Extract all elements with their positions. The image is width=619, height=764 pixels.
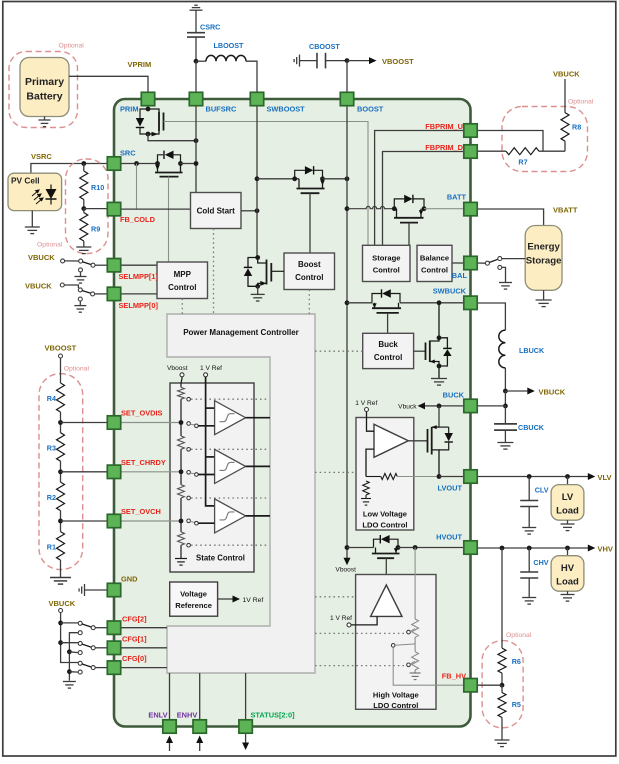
switch CFG[0] xyxy=(69,661,107,674)
svg-text:R10: R10 xyxy=(91,183,104,192)
svg-text:R6: R6 xyxy=(512,657,521,666)
switch SELMPP[0] xyxy=(60,283,107,312)
wire BUCK pin external xyxy=(477,405,505,407)
svg-text:CHV: CHV xyxy=(533,558,548,567)
pin BOOST xyxy=(340,92,353,105)
pin HVOUT xyxy=(464,541,477,554)
svg-text:1 V Ref: 1 V Ref xyxy=(200,365,222,372)
wire VLV with arrow xyxy=(477,473,612,482)
svg-text:PRIM: PRIM xyxy=(120,105,138,114)
pin ENHV xyxy=(193,720,206,733)
svg-text:Load: Load xyxy=(556,506,579,517)
resistor R9 xyxy=(80,209,100,247)
svg-text:1 V Ref: 1 V Ref xyxy=(355,400,377,407)
transistor (LV pass PMOS) xyxy=(428,425,440,476)
Power Management Controller block xyxy=(167,314,315,673)
svg-text:VLV: VLV xyxy=(598,473,612,482)
pin SWBOOST xyxy=(250,92,263,105)
Voltage Reference block xyxy=(170,582,218,616)
optional dashed box (R4-R1) xyxy=(39,374,83,570)
svg-text:Boost: Boost xyxy=(298,260,321,269)
pin SRC xyxy=(107,157,120,170)
svg-text:Energy: Energy xyxy=(527,242,560,253)
node FB_COLD junction xyxy=(81,206,86,211)
dotted link PMC to LV LDO xyxy=(315,471,356,473)
svg-text:Vboost: Vboost xyxy=(335,567,356,574)
svg-text:Optional: Optional xyxy=(568,99,594,106)
transistor (buck NMOS) xyxy=(426,303,440,379)
svg-text:BUCK: BUCK xyxy=(443,390,465,399)
gate lead HV pass xyxy=(385,558,387,585)
inductor LBOOST xyxy=(196,41,257,92)
HV Load xyxy=(551,548,584,591)
wire VHV with arrow xyxy=(477,545,613,554)
pin GND xyxy=(107,583,120,596)
wire FBPRIM_U internal xyxy=(375,131,464,246)
wire Buck Control to buck NMOS gate xyxy=(414,350,426,352)
wire 1VRef to op-amp (HV) xyxy=(351,616,377,625)
svg-text:State Control: State Control xyxy=(196,554,245,563)
svg-text:GND: GND xyxy=(121,575,138,584)
svg-text:CFG[0]: CFG[0] xyxy=(122,654,147,663)
pin CFG[0] xyxy=(107,661,120,674)
svg-text:Control: Control xyxy=(374,353,402,362)
svg-text:LDO Control: LDO Control xyxy=(373,701,418,710)
node boost NMOS drain xyxy=(255,255,260,260)
resistor R6 xyxy=(498,548,521,685)
ground (Energy Storage) xyxy=(536,290,552,306)
ground (CFG rail) xyxy=(63,682,76,689)
feedback ladder (HV LDO) xyxy=(410,548,421,680)
svg-text:FB_COLD: FB_COLD xyxy=(120,215,156,224)
wire SET_CHRDY xyxy=(61,471,108,473)
node A (PRIM) xyxy=(146,107,151,112)
svg-text:SET_OVCH: SET_OVCH xyxy=(121,507,161,516)
State Control block xyxy=(170,383,254,572)
ground (Primary Battery) xyxy=(39,117,51,127)
wire CFG[2] internal xyxy=(121,627,167,629)
wire FB_COLD internal xyxy=(121,208,191,210)
PV Cell xyxy=(8,173,62,210)
pin CFG[1] xyxy=(107,641,120,654)
svg-text:BOOST: BOOST xyxy=(357,105,384,114)
svg-text:BUFSRC: BUFSRC xyxy=(206,105,237,114)
dotted link PMC to Buck Control xyxy=(315,350,363,352)
node SRC right xyxy=(178,161,183,166)
1VRef bus (state control) xyxy=(206,377,215,506)
wire FBPRIM_D internal xyxy=(383,152,465,246)
transistor (buck PMOS) xyxy=(372,303,401,313)
node VBOOST junction xyxy=(345,58,350,63)
svg-text:LV: LV xyxy=(562,492,574,503)
wire Cold Start to SWBOOST bus xyxy=(241,210,257,212)
switch CFG[2] xyxy=(61,621,107,634)
node boost right xyxy=(320,176,325,181)
pin SELMPP[0] xyxy=(107,287,120,300)
diode (boost PMOS body) xyxy=(295,166,323,179)
svg-text:R5: R5 xyxy=(512,700,521,709)
wire SWBUCK internal xyxy=(345,300,350,305)
ground (CBUCK) xyxy=(497,443,513,450)
Buck Control block xyxy=(363,333,414,368)
svg-text:Primary: Primary xyxy=(25,76,64,88)
Energy Storage xyxy=(525,226,562,291)
MPP Control block xyxy=(157,262,208,299)
pin PRIM xyxy=(141,92,154,105)
ground (HV Load) xyxy=(561,591,575,601)
switch taps (HV LDO) xyxy=(407,629,415,634)
diode (PRIM body) xyxy=(136,109,148,134)
nodes buck NMOS xyxy=(437,335,442,340)
inductor LBUCK xyxy=(499,330,545,391)
1V Ref output arrow xyxy=(218,596,264,604)
pin SELMPP[1] xyxy=(107,259,120,272)
diode (HV pass body) xyxy=(374,535,399,548)
capacitor CBOOST with ground xyxy=(294,42,347,68)
diode (SRC body) xyxy=(158,151,181,164)
wire HV stage to HVOUT pin xyxy=(398,547,464,549)
Storage Control block xyxy=(363,245,411,281)
optional dashed box (R6 R5) xyxy=(482,641,523,728)
wire SWBUCK to LBUCK xyxy=(477,303,505,330)
comparator 2 (CHRDY) xyxy=(187,449,270,483)
transistor (SRC NMOS) xyxy=(155,164,183,177)
wire VBOOST node to BOOST pin xyxy=(346,61,348,92)
svg-text:Power Management Controller: Power Management Controller xyxy=(183,328,299,337)
svg-text:SWBOOST: SWBOOST xyxy=(267,105,306,114)
diode (buck NMOS body) xyxy=(439,338,452,366)
diode (boost NMOS body) xyxy=(244,258,258,287)
pin FB_HV xyxy=(464,679,477,692)
node SET_OVCH xyxy=(60,511,62,532)
svg-text:Buck: Buck xyxy=(378,340,398,349)
svg-text:Optional: Optional xyxy=(64,366,90,373)
svg-text:VBUCK: VBUCK xyxy=(28,253,55,262)
capacitor CBUCK xyxy=(494,406,545,443)
ground (PV Cell) xyxy=(25,211,40,234)
svg-text:VBUCK: VBUCK xyxy=(553,70,580,79)
switch BAL xyxy=(477,257,525,290)
pin BATT xyxy=(464,202,477,215)
pin FBPRIM_D xyxy=(464,145,477,158)
node SET_CHRDY xyxy=(60,461,62,482)
wire FB_HV external xyxy=(477,684,502,686)
boost high-side: wire to left node xyxy=(257,178,295,180)
wire SRC to FB_COLD tap xyxy=(136,164,138,210)
SET_OVCH wire to ladder xyxy=(121,520,181,522)
ground (R9) xyxy=(76,247,91,254)
gate line PRIM MOSFET to storage control xyxy=(164,122,369,246)
svg-text:Vboost: Vboost xyxy=(167,365,188,372)
svg-text:SELMPP[1]: SELMPP[1] xyxy=(119,272,159,281)
wire CFG[1] internal xyxy=(121,647,167,649)
svg-text:R2: R2 xyxy=(47,493,56,502)
dotted link MPP Control to PMC xyxy=(181,299,183,315)
svg-text:FB_HV: FB_HV xyxy=(442,672,466,681)
svg-text:SELMPP[0]: SELMPP[0] xyxy=(119,301,159,310)
ground (boost NMOS) xyxy=(251,286,265,301)
svg-text:HVOUT: HVOUT xyxy=(436,532,462,541)
svg-text:SET_CHRDY: SET_CHRDY xyxy=(121,458,166,467)
comparator 3 (OVCH) xyxy=(187,499,270,533)
wire ENHV xyxy=(199,673,201,720)
wire LBUCK to BUCK pin node xyxy=(504,391,506,406)
svg-text:Storage: Storage xyxy=(372,254,400,263)
wire HVOUT stage xyxy=(345,545,350,550)
svg-text:Voltage: Voltage xyxy=(180,590,207,599)
Vbuck arrow xyxy=(398,402,439,410)
resistor R7 xyxy=(477,148,565,167)
svg-text:LBOOST: LBOOST xyxy=(214,41,245,50)
node SET_OVDIS xyxy=(60,412,62,433)
wire LVOUT internal xyxy=(397,476,439,478)
wire BAL internal xyxy=(452,262,464,264)
svg-text:LVOUT: LVOUT xyxy=(438,483,463,492)
wire node B to BUFSRC bus xyxy=(148,134,196,141)
dotted link Boost Control to PMC xyxy=(308,290,310,315)
ground rail (CFG) xyxy=(69,633,78,681)
gate lead BATT PMOS xyxy=(408,223,410,246)
ground (buck NMOS) xyxy=(431,379,447,386)
pin LVOUT xyxy=(464,470,477,483)
ground (LV Load) xyxy=(561,520,575,530)
VBOOST output arrow xyxy=(347,57,414,66)
node VSRC/R10 xyxy=(81,161,86,166)
High Voltage LDO Control block xyxy=(356,575,436,711)
ground (CHV) xyxy=(522,598,536,605)
node SRC left xyxy=(155,161,160,166)
svg-text:Cold Start: Cold Start xyxy=(197,207,236,216)
svg-text:Control: Control xyxy=(295,273,323,282)
transistor (HV pass PMOS) xyxy=(372,548,400,559)
svg-text:Optional: Optional xyxy=(37,242,63,249)
svg-text:CFG[2]: CFG[2] xyxy=(122,614,147,623)
wire Vbuck node to LV pass transistor xyxy=(438,406,440,427)
svg-text:R9: R9 xyxy=(91,225,100,234)
svg-text:Battery: Battery xyxy=(26,91,62,103)
resistor R1 xyxy=(47,532,65,561)
wire buck PMOS to SWBUCK pin xyxy=(400,302,464,304)
svg-text:R7: R7 xyxy=(518,158,527,167)
pin FB_COLD xyxy=(107,202,120,215)
ladder taps with dotted selects xyxy=(187,397,269,401)
svg-text:ENHV: ENHV xyxy=(177,711,198,720)
resistor R5 xyxy=(498,685,521,740)
pin SET_OVCH xyxy=(107,514,120,527)
svg-text:VBOOST: VBOOST xyxy=(45,344,77,353)
BOOST bus (Vboost rail) xyxy=(346,106,348,558)
svg-text:SRC: SRC xyxy=(120,149,136,158)
switch CFG[1] xyxy=(61,641,107,654)
Primary Battery xyxy=(20,58,69,117)
transistor (PRIM PMOS) xyxy=(148,109,164,136)
pin BUCK xyxy=(464,399,477,412)
svg-text:R1: R1 xyxy=(47,543,56,552)
ground (CLV) xyxy=(522,528,536,535)
optional dashed box (R8 R7) xyxy=(502,107,588,172)
wire STATUS xyxy=(245,673,247,720)
SET_CHRDY wire to ladder xyxy=(121,471,181,473)
pin SET_CHRDY xyxy=(107,465,120,478)
svg-text:Reference: Reference xyxy=(175,601,212,610)
wire SRC right to BUFSRC bus xyxy=(181,163,197,165)
svg-text:CLV: CLV xyxy=(535,485,549,494)
ENLV input arrow xyxy=(166,736,173,752)
svg-text:VHV: VHV xyxy=(598,545,613,554)
gate line SRC NMOS to MPP control xyxy=(168,177,170,262)
wire SET_OVDIS xyxy=(61,422,108,424)
SET_OVDIS wire to ladder xyxy=(121,422,181,424)
svg-text:HV: HV xyxy=(561,563,575,574)
ENHV input arrow xyxy=(196,736,203,752)
diode (LV pass body) xyxy=(439,427,453,450)
wire FB_HV internal xyxy=(393,647,464,685)
svg-text:STATUS[2:0]: STATUS[2:0] xyxy=(251,711,296,720)
capacitor CHV xyxy=(520,548,549,598)
op-amp (HV LDO) xyxy=(371,585,402,616)
svg-text:Balance: Balance xyxy=(420,254,449,263)
pin CFG[2] xyxy=(107,621,120,634)
wire BUCK pin internal xyxy=(439,405,464,407)
svg-text:1 V Ref: 1 V Ref xyxy=(330,615,352,622)
svg-text:Vbuck: Vbuck xyxy=(398,404,417,411)
svg-text:Load: Load xyxy=(556,577,579,588)
Vboost arrow (HV supply) xyxy=(344,558,351,566)
svg-text:VBUCK: VBUCK xyxy=(539,387,566,396)
svg-text:SET_OVDIS: SET_OVDIS xyxy=(121,409,163,418)
svg-text:VBOOST: VBOOST xyxy=(382,57,414,66)
STATUS output arrow xyxy=(242,734,249,751)
resistor R8 xyxy=(561,79,581,151)
svg-text:CFG[1]: CFG[1] xyxy=(122,634,147,643)
wire VPRIM xyxy=(69,76,148,92)
FB tap circle xyxy=(391,644,395,648)
svg-text:Control: Control xyxy=(373,266,400,275)
svg-text:Control: Control xyxy=(168,283,196,292)
svg-text:MPP: MPP xyxy=(174,270,192,279)
wire VSRC xyxy=(31,164,107,174)
feedback network (LV LDO) xyxy=(361,449,397,505)
svg-text:Optional: Optional xyxy=(506,632,532,639)
ground (GND pin) xyxy=(79,584,109,596)
dotted links PMC to HV LDO taps xyxy=(315,632,407,634)
svg-text:CBUCK: CBUCK xyxy=(518,423,545,432)
svg-text:R4: R4 xyxy=(47,394,56,403)
gate lead buck PMOS xyxy=(387,313,389,333)
diode (BATT PMOS body) xyxy=(394,195,424,209)
pin BAL xyxy=(464,256,477,269)
svg-text:VSRC: VSRC xyxy=(31,152,52,161)
wire FBPRIM_U external xyxy=(477,131,543,152)
svg-text:R8: R8 xyxy=(572,123,581,132)
resistor R4 xyxy=(47,358,65,412)
pin STATUS[2:0] xyxy=(239,720,252,733)
pin BUFSRC xyxy=(189,92,202,105)
node BUFSRC-top junction xyxy=(194,59,199,64)
resistor R2 xyxy=(47,482,65,511)
node FB_HV xyxy=(500,683,505,688)
ground (R5) xyxy=(495,740,510,747)
svg-text:LDO Control: LDO Control xyxy=(362,521,407,530)
dotted link PMC to HV LDO box xyxy=(315,596,356,598)
svg-text:VPRIM: VPRIM xyxy=(128,60,152,69)
ground (CSRC top) xyxy=(190,5,203,33)
svg-text:BAL: BAL xyxy=(452,271,468,280)
wire to BATT pin xyxy=(424,208,464,210)
svg-text:Low Voltage: Low Voltage xyxy=(363,510,407,519)
svg-text:R3: R3 xyxy=(47,444,56,453)
pin SWBUCK xyxy=(464,296,477,309)
Cold Start block xyxy=(191,193,242,229)
pin ENLV xyxy=(163,720,176,733)
resistor R3 xyxy=(47,433,65,462)
wire BATT stage with hops xyxy=(345,206,350,211)
ground (R1) xyxy=(50,560,71,584)
wire PRIM pin to node A xyxy=(147,106,149,109)
node boost NMOS source xyxy=(255,284,260,289)
svg-text:High Voltage: High Voltage xyxy=(373,691,419,700)
node BATT right xyxy=(422,206,427,211)
resistor R10 xyxy=(80,164,104,209)
svg-text:PV Cell: PV Cell xyxy=(11,176,40,186)
svg-text:Storage: Storage xyxy=(526,256,562,267)
SWBOOST bus xyxy=(256,106,258,258)
comparator 1 (OVDIS) xyxy=(187,401,270,435)
wire SELMPP[0] internal xyxy=(121,293,157,295)
node VBUCK arrow junction xyxy=(503,389,508,394)
wire boost to BOOST bus xyxy=(323,178,348,180)
transistor (BATT PMOS) xyxy=(394,209,424,223)
wire VBATT xyxy=(477,209,544,226)
svg-text:SWBUCK: SWBUCK xyxy=(433,287,467,296)
svg-text:CSRC: CSRC xyxy=(200,23,220,32)
wire CFG[0] internal xyxy=(121,667,167,669)
wire op-amp out to pass gate xyxy=(408,440,427,442)
Low Voltage LDO Control block xyxy=(356,418,414,531)
wire ENLV xyxy=(169,673,171,720)
pin FBPRIM_U xyxy=(464,124,477,137)
optional dashed box (Primary Battery) xyxy=(9,52,78,128)
transistor (boost PMOS) xyxy=(295,179,325,193)
switch SELMPP[1] xyxy=(61,259,107,283)
transistor (boost NMOS) xyxy=(258,258,284,287)
Boost Control block xyxy=(284,253,335,290)
svg-text:FBPRIM_U: FBPRIM_U xyxy=(425,122,463,131)
svg-text:Control: Control xyxy=(421,266,448,275)
node BATT left xyxy=(392,206,397,211)
VBUCK output arrow xyxy=(505,387,565,396)
VBUCK rail (CFG) xyxy=(61,613,79,663)
wire SRC pin xyxy=(121,163,158,165)
svg-text:VBATT: VBATT xyxy=(553,206,578,215)
capacitor CSRC xyxy=(187,23,220,62)
svg-text:ENLV: ENLV xyxy=(148,711,167,720)
optional dashed box (R10 R9) xyxy=(66,159,109,254)
svg-text:FBPRIM_D: FBPRIM_D xyxy=(425,143,463,152)
gate lead boost PMOS xyxy=(309,193,311,253)
node B (PRIM) xyxy=(146,132,151,137)
wire SET_OVCH xyxy=(61,520,108,522)
diode (buck PMOS body) xyxy=(372,289,400,303)
svg-text:1V Ref: 1V Ref xyxy=(243,597,264,604)
svg-text:BATT: BATT xyxy=(447,193,467,202)
svg-text:VBUCK: VBUCK xyxy=(25,281,52,290)
wire CSRC/LBOOST node to BUFSRC pin xyxy=(195,61,197,92)
op-amp (LV LDO) xyxy=(374,424,408,457)
wire FB_COLD xyxy=(84,208,107,210)
svg-text:LBUCK: LBUCK xyxy=(519,346,545,355)
wire SELMPP[1] internal xyxy=(121,264,157,266)
